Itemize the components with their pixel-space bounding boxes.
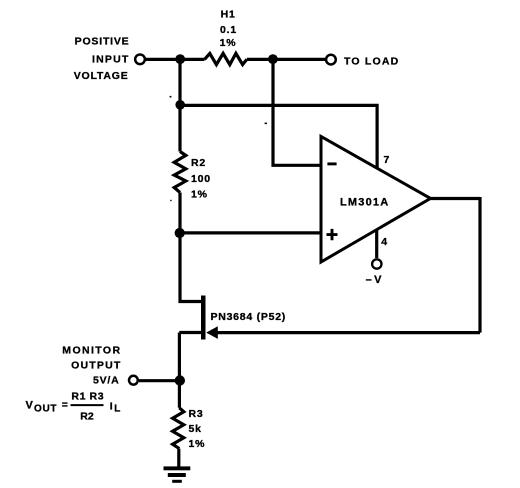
svg-text:PN3684 (P52): PN3684 (P52) (211, 311, 287, 323)
svg-text:7: 7 (384, 154, 391, 166)
svg-text:I: I (110, 400, 113, 412)
svg-text:1%: 1% (189, 438, 206, 450)
svg-text:OUTPUT: OUTPUT (71, 359, 121, 371)
svg-text:100: 100 (191, 173, 211, 185)
svg-text:R1 R3: R1 R3 (71, 391, 104, 403)
svg-text:POSITIVE: POSITIVE (75, 35, 130, 47)
svg-text:5V/A: 5V/A (93, 375, 120, 387)
svg-text:INPUT: INPUT (92, 54, 130, 66)
svg-text:–V: –V (366, 274, 384, 286)
svg-text:OUT: OUT (34, 403, 57, 414)
svg-text:LM301A: LM301A (340, 196, 389, 208)
svg-text:R2: R2 (80, 411, 94, 423)
svg-text:L: L (114, 404, 120, 415)
svg-text:1%: 1% (191, 189, 208, 201)
svg-text:1%: 1% (220, 37, 237, 49)
svg-text:0.1: 0.1 (220, 24, 237, 36)
svg-text:H1: H1 (221, 8, 236, 20)
svg-text:MONITOR: MONITOR (62, 344, 121, 356)
svg-text:4: 4 (381, 236, 388, 248)
svg-text:TO LOAD: TO LOAD (344, 56, 399, 68)
svg-text:=: = (62, 399, 68, 411)
svg-text:VOLTAGE: VOLTAGE (74, 70, 129, 82)
svg-text:R3: R3 (189, 408, 204, 420)
svg-text:R2: R2 (191, 157, 206, 169)
svg-text:5k: 5k (189, 423, 202, 435)
svg-text:V: V (26, 399, 34, 411)
